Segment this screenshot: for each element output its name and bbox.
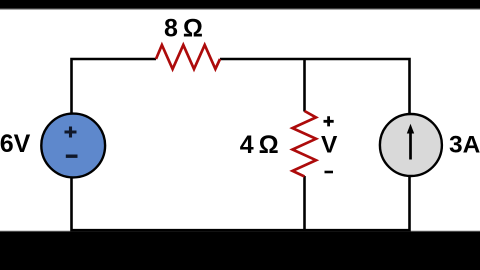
label V minus bbox=[325, 171, 334, 174]
svg-text:4 Ω: 4 Ω bbox=[240, 131, 279, 159]
wire bottom (source bottom to current source bottom) bbox=[72, 176, 410, 230]
arrow of current source bbox=[409, 131, 412, 160]
plus sign of source bbox=[65, 127, 77, 138]
svg-text:8 Ω: 8 Ω bbox=[164, 15, 203, 43]
voltage source V1 6V bbox=[41, 114, 105, 178]
svg-text:V: V bbox=[321, 131, 338, 158]
wire top-right (8-ohm right lead to current source top) bbox=[220, 59, 410, 116]
wire middle-top (top node to 4-ohm) bbox=[303, 59, 306, 112]
current source I1 3A bbox=[380, 114, 442, 176]
resistor 8 ohm bbox=[156, 45, 220, 69]
wire middle-bottom (4-ohm to bottom node) bbox=[303, 176, 306, 230]
svg-text:3A: 3A bbox=[449, 132, 480, 159]
label V plus bbox=[324, 116, 334, 126]
svg-text:6V: 6V bbox=[0, 130, 31, 158]
resistor 4 ohm bbox=[293, 111, 317, 177]
wire top-left (source top to 8-ohm left lead) bbox=[72, 59, 157, 113]
minus sign of source bbox=[66, 154, 78, 157]
